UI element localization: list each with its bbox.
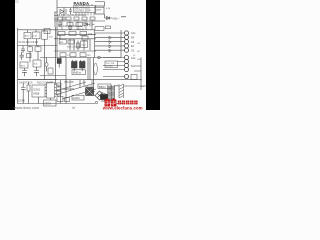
svg-text:www.elecfans.com: www.elecfans.com xyxy=(102,105,143,110)
watermark small char 5 xyxy=(134,101,137,105)
wire stub R501 xyxy=(28,82,30,96)
wire bc verticals xyxy=(66,80,95,92)
resistor R806 xyxy=(90,17,95,20)
capacitor C103 xyxy=(34,67,39,76)
capacitor C805 xyxy=(44,29,50,34)
capacitor C601 box xyxy=(44,100,57,106)
resistor R106 xyxy=(35,47,41,51)
resistor R104 xyxy=(48,68,53,74)
resistor R808 xyxy=(76,22,83,26)
U801 top stubs xyxy=(76,4,92,6)
resistor R207 xyxy=(80,53,86,57)
connector CN2 pin4 xyxy=(124,67,128,71)
label gray url bottom-left xyxy=(14,105,39,110)
left black band xyxy=(0,0,15,110)
wire ladder join xyxy=(120,30,122,58)
resistor R811 xyxy=(69,32,76,36)
resistor R804 xyxy=(74,17,79,20)
connector CN2 pin1 xyxy=(124,55,128,59)
resistor R107 xyxy=(27,54,32,58)
diode D801 xyxy=(107,17,110,20)
wire bus C xyxy=(18,79,58,81)
wire ladder lower rows xyxy=(103,58,125,77)
U801 pins xyxy=(76,13,94,16)
wire ladder row 1 xyxy=(95,32,125,34)
wire bus D1 xyxy=(57,34,96,36)
diode D210 xyxy=(69,26,72,29)
op-amp U501 xyxy=(32,85,45,97)
wire bus F xyxy=(18,79,142,81)
wire diagonal 1 xyxy=(55,83,95,95)
wire from U802 xyxy=(105,14,113,18)
wire transformer leads xyxy=(115,86,147,104)
wire bottom verticals xyxy=(23,93,50,103)
transistor Q901 dark xyxy=(101,93,108,103)
resistor R102 xyxy=(33,32,40,39)
op-amp U801 block xyxy=(74,6,96,13)
transistor Q201 xyxy=(57,58,61,68)
capacitor C801 xyxy=(58,21,62,27)
resistor R211 xyxy=(68,40,75,44)
capacitor C101 xyxy=(42,31,48,39)
op-amp U601 box xyxy=(72,95,84,100)
wire bus B xyxy=(18,45,58,47)
resistor R812 xyxy=(80,31,87,35)
resistor R204 xyxy=(77,43,80,48)
capacitor C806 xyxy=(88,22,95,27)
wire frame left vertical xyxy=(17,28,19,104)
transistor Q304 xyxy=(109,49,111,52)
node bridge out xyxy=(95,101,98,104)
transistor Q202 xyxy=(72,60,78,71)
resistor R303 xyxy=(131,75,137,80)
resistor R212 xyxy=(81,41,88,48)
resistor R105 xyxy=(28,47,33,51)
wire diagonal 3 xyxy=(62,89,96,99)
resistor R202 xyxy=(82,36,88,40)
capacitor C603 xyxy=(65,98,70,102)
wire mid bus xyxy=(55,20,105,22)
connector CN1 pin2 xyxy=(124,35,128,39)
diode D201 xyxy=(45,63,48,67)
resistor R205 xyxy=(60,53,66,57)
resistor R809 xyxy=(62,17,65,20)
wire into bridge xyxy=(94,58,96,96)
connector CN2 pin2 xyxy=(124,59,128,63)
watermark small char 2 xyxy=(122,101,125,105)
tick marks left trunk xyxy=(54,12,58,19)
wire ladder row 3 xyxy=(95,41,125,43)
relay K601 dark xyxy=(86,88,94,96)
watermark logo char 2 xyxy=(111,98,117,100)
resistor R803 xyxy=(66,17,71,20)
resistor R206 xyxy=(70,53,76,57)
node J1 xyxy=(140,79,141,80)
wire bottom bus xyxy=(18,103,96,105)
node dash right xyxy=(121,16,126,18)
resistor R802 xyxy=(58,17,63,20)
wire bus D2 xyxy=(54,38,96,40)
wire ladder row 2 xyxy=(95,36,125,38)
resistor R201 xyxy=(59,40,66,45)
wire left vertical trunk xyxy=(55,0,57,27)
transformer T901 windings xyxy=(108,85,115,103)
resistor R501 xyxy=(27,85,30,91)
wire ladder row 5 xyxy=(95,49,125,51)
wire right trunk xyxy=(94,30,96,57)
transistor Q303 xyxy=(109,45,111,48)
wire droppers xyxy=(60,35,90,51)
watermark small char 3 xyxy=(126,101,129,105)
op-amp U401 box xyxy=(105,61,118,68)
connector CN1 pin1 xyxy=(124,31,128,35)
capacitor C102 xyxy=(22,68,27,76)
wire top verticals xyxy=(62,21,92,30)
op-amp U101 xyxy=(33,60,41,67)
watermark glyph slits xyxy=(105,100,117,106)
right black band xyxy=(146,0,160,110)
resistor R807 xyxy=(67,23,73,27)
connector CN2 pin3 xyxy=(124,63,128,67)
resistor R612 xyxy=(57,91,62,94)
wire center lower verticals xyxy=(61,58,91,104)
label B801 box xyxy=(98,84,111,89)
resistor R302 box xyxy=(106,26,111,29)
resistor R810 xyxy=(58,32,65,36)
transistor Q302 xyxy=(109,41,111,44)
wire bus E xyxy=(54,50,96,52)
connector CN2 pin5 xyxy=(124,74,128,78)
wire mid horizontal xyxy=(40,75,66,77)
wire ladder row 4 xyxy=(95,45,125,47)
connector CN1 pin4 xyxy=(124,44,128,48)
connector CN1 pin3 xyxy=(124,40,128,44)
wire top bus xyxy=(57,7,104,9)
connector CN1 pin5 xyxy=(124,48,128,52)
IC U502 with pins xyxy=(45,83,56,99)
watermark small char 4 xyxy=(130,101,133,105)
wire bus A xyxy=(18,29,96,31)
IC U802 box xyxy=(95,6,104,14)
capacitor C800 xyxy=(69,8,72,15)
resistor R611 xyxy=(57,87,62,90)
resistor R101 xyxy=(24,32,31,38)
wire top right stub xyxy=(95,2,105,7)
resistor R208 xyxy=(72,70,86,75)
resistor R805 xyxy=(82,17,87,20)
wire stubs row1 xyxy=(28,30,45,46)
capacitor C501 xyxy=(21,83,26,93)
diode D802 xyxy=(84,23,88,27)
wire bus G xyxy=(40,57,121,59)
wire right column stubs xyxy=(134,66,141,71)
wire diode lead xyxy=(46,58,48,72)
transformer T901 core hatch xyxy=(119,84,124,98)
resistor R610 xyxy=(57,83,62,86)
inductor L301 xyxy=(94,63,98,75)
wire stub right edge xyxy=(141,85,144,87)
watermark small slits xyxy=(118,101,138,105)
transistor Q301 xyxy=(109,36,111,39)
wire right edge vertical xyxy=(140,58,142,91)
wire center verticals xyxy=(56,27,58,84)
capacitor C104 xyxy=(21,46,25,54)
capacitor C602 xyxy=(57,97,63,102)
diode D301 arrow xyxy=(98,56,102,59)
resistor R103 xyxy=(20,62,28,68)
capacitor C105 xyxy=(20,52,25,60)
wire stubs row2 xyxy=(30,46,45,80)
resistor R301 box xyxy=(95,27,104,31)
watermark logo char 1 xyxy=(104,98,116,106)
transistor Q203 xyxy=(80,60,86,71)
diode bridge D901 xyxy=(95,91,104,100)
wire verticals center-bottom xyxy=(80,80,84,88)
wire diagonal 2 xyxy=(55,82,86,91)
watermark small char 1 xyxy=(118,101,138,105)
transistor Q801 xyxy=(60,8,66,16)
